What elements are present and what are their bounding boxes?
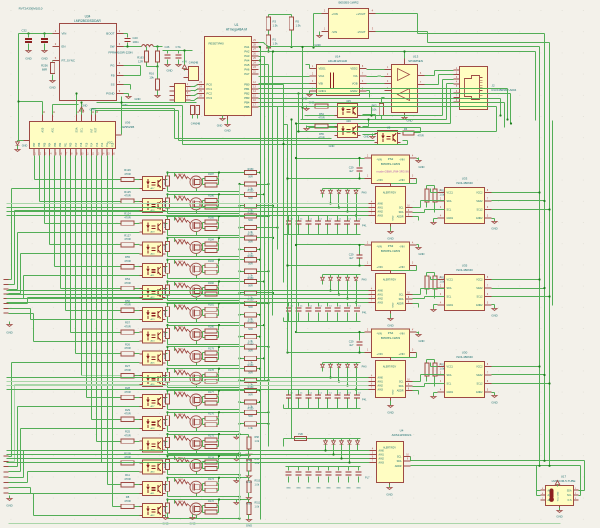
svg-text:R132: R132 — [178, 239, 184, 241]
svg-text:R25: R25 — [125, 430, 130, 434]
svg-text:GND: GND — [49, 86, 55, 90]
svg-text:GND: GND — [393, 302, 395, 307]
svg-text:56R: 56R — [248, 393, 253, 396]
svg-text:R128: R128 — [165, 440, 167, 446]
svg-text:GND: GND — [364, 135, 370, 139]
svg-text:GND: GND — [326, 488, 331, 490]
svg-text:GND2: GND2 — [350, 89, 358, 93]
svg-text:SDA: SDA — [447, 287, 452, 290]
svg-text:P07: P07 — [33, 142, 36, 147]
svg-text:GND: GND — [314, 43, 320, 47]
svg-text:470R: 470R — [124, 390, 130, 394]
svg-text:GND: GND — [419, 252, 425, 256]
svg-text:C29: C29 — [349, 253, 354, 257]
svg-text:VCC1: VCC1 — [447, 279, 454, 282]
svg-text:R132: R132 — [178, 196, 184, 198]
svg-text:R132: R132 — [178, 436, 184, 438]
svg-text:1.0k: 1.0k — [255, 484, 260, 487]
svg-text:SCL: SCL — [81, 127, 84, 132]
svg-text:PS2: PS2 — [388, 157, 394, 161]
svg-text:R132: R132 — [178, 348, 184, 350]
svg-text:P41: P41 — [362, 399, 367, 402]
svg-text:GND: GND — [387, 411, 393, 415]
svg-text:GND: GND — [491, 401, 497, 405]
svg-text:SDA2: SDA2 — [476, 374, 483, 377]
svg-text:U13: U13 — [413, 55, 419, 59]
svg-text:SCL: SCL — [447, 209, 452, 212]
svg-text:AIN2: AIN2 — [379, 458, 385, 461]
svg-text:R55: R55 — [319, 132, 324, 136]
svg-text:470R: 470R — [124, 433, 130, 437]
svg-text:U33: U33 — [462, 177, 468, 181]
svg-text:AIN1: AIN1 — [378, 294, 384, 297]
svg-text:SS: SS — [111, 83, 115, 87]
svg-text:ALERT/RDY: ALERT/RDY — [383, 192, 397, 195]
svg-text:+VOUT: +VOUT — [356, 12, 366, 16]
svg-text:B0505S-1WR3: B0505S-1WR3 — [381, 249, 401, 253]
svg-text:GND: GND — [6, 504, 12, 508]
svg-text:56R: 56R — [248, 328, 253, 331]
svg-text:P05: P05 — [43, 142, 46, 147]
svg-text:U35: U35 — [462, 264, 468, 268]
svg-text:ALERT/RDY: ALERT/RDY — [383, 447, 396, 450]
svg-text:SDA: SDA — [447, 374, 452, 377]
svg-text:-VOUT: -VOUT — [357, 30, 366, 34]
svg-text:R180: R180 — [208, 326, 214, 329]
svg-text:R132: R132 — [178, 218, 184, 220]
svg-text:R127: R127 — [124, 233, 131, 237]
svg-text:AIN2: AIN2 — [378, 385, 384, 388]
svg-text:R128: R128 — [165, 309, 167, 315]
svg-text:AIN2: AIN2 — [378, 211, 384, 214]
svg-text:R3: R3 — [273, 20, 277, 24]
svg-text:SCL: SCL — [397, 456, 402, 459]
svg-text:56R: 56R — [248, 219, 253, 222]
svg-text:R132: R132 — [178, 305, 184, 307]
svg-text:SDA: SDA — [399, 385, 404, 388]
svg-text:GND: GND — [387, 237, 393, 241]
svg-text:R150: R150 — [248, 277, 254, 280]
svg-text:C29: C29 — [349, 340, 354, 344]
svg-text:R8: R8 — [126, 495, 130, 499]
svg-text:U17: U17 — [561, 475, 567, 479]
svg-text:SDA: SDA — [399, 211, 404, 214]
svg-text:R1: R1 — [273, 38, 277, 42]
svg-text:P41: P41 — [362, 312, 367, 315]
svg-text:SCL: SCL — [447, 296, 452, 299]
svg-text:GND: GND — [386, 493, 392, 497]
svg-text:GND: GND — [419, 165, 425, 169]
svg-text:VCC1: VCC1 — [447, 192, 454, 195]
svg-text:68R: 68R — [42, 68, 47, 72]
svg-text:56R: 56R — [248, 306, 253, 309]
svg-text:R132: R132 — [178, 479, 184, 481]
svg-text:SDA: SDA — [397, 460, 402, 463]
svg-text:VOB: VOB — [352, 82, 358, 86]
svg-text:AIN3: AIN3 — [378, 389, 384, 392]
svg-text:J2: J2 — [492, 84, 495, 88]
svg-text:C32: C32 — [22, 29, 28, 33]
svg-text:1.5k: 1.5k — [273, 42, 279, 46]
svg-text:PH0: PH0 — [362, 279, 367, 282]
svg-text:470R: 470R — [124, 477, 130, 481]
svg-text:U2: U2 — [387, 126, 391, 130]
svg-text:SW: SW — [110, 45, 115, 49]
svg-text:GND2: GND2 — [476, 304, 483, 307]
svg-text:VDD2: VDD2 — [350, 67, 358, 71]
svg-text:1.0k: 1.0k — [255, 440, 260, 443]
svg-text:470R: 470R — [318, 116, 324, 120]
svg-text:R178: R178 — [208, 369, 214, 372]
svg-text:GND: GND — [135, 97, 141, 101]
svg-text:GND: GND — [419, 339, 425, 343]
svg-text:U1: U1 — [234, 23, 238, 27]
svg-text:GND: GND — [346, 488, 351, 490]
svg-text:R132: R132 — [178, 261, 184, 263]
svg-text:-VIN: -VIN — [399, 332, 404, 336]
svg-text:R150: R150 — [248, 299, 254, 302]
svg-text:SDA: SDA — [567, 489, 572, 492]
svg-text:PA6: PA6 — [244, 68, 250, 72]
svg-text:P13: P13 — [96, 142, 99, 147]
svg-text:AIN3: AIN3 — [378, 302, 384, 305]
svg-text:GND: GND — [387, 324, 393, 328]
svg-text:AIN1: AIN1 — [378, 381, 384, 384]
svg-text:100n: 100n — [133, 40, 140, 44]
svg-text:R29: R29 — [125, 408, 130, 412]
svg-text:R128: R128 — [165, 244, 167, 250]
svg-text:R150: R150 — [248, 321, 254, 324]
svg-text:R511: R511 — [255, 502, 261, 505]
svg-text:C29: C29 — [349, 166, 354, 170]
svg-text:AIN0: AIN0 — [379, 450, 385, 453]
svg-text:P12: P12 — [101, 142, 104, 147]
svg-text:R128: R128 — [165, 484, 167, 490]
svg-text:56R: 56R — [248, 350, 253, 353]
svg-text:SCL2: SCL2 — [477, 383, 484, 386]
svg-text:P16: P16 — [80, 142, 83, 147]
svg-text:470R: 470R — [124, 412, 130, 416]
svg-text:SDA2: SDA2 — [476, 200, 483, 203]
svg-text:R179: R179 — [208, 347, 214, 350]
svg-text:ADDR: ADDR — [397, 303, 404, 306]
svg-text:GND: GND — [336, 488, 341, 490]
svg-text:PB0: PB0 — [244, 83, 250, 87]
svg-text:ALERT/RDY: ALERT/RDY — [383, 279, 397, 282]
svg-text:GND: GND — [286, 488, 291, 490]
svg-text:SDA2: SDA2 — [476, 287, 483, 290]
svg-text:R150: R150 — [248, 408, 254, 411]
svg-text:R186: R186 — [208, 195, 214, 198]
svg-text:AIN3: AIN3 — [378, 215, 384, 218]
svg-text:470R: 470R — [124, 281, 130, 285]
svg-text:ATmega48A-M: ATmega48A-M — [226, 28, 248, 32]
svg-text:-VIN: -VIN — [399, 245, 404, 249]
svg-text:+VIN: +VIN — [377, 178, 383, 182]
svg-text:-VIN: -VIN — [332, 30, 338, 34]
svg-text:R6: R6 — [404, 127, 408, 131]
svg-text:PGND: PGND — [106, 92, 114, 96]
svg-text:+VIN: +VIN — [377, 265, 383, 269]
svg-text:GND: GND — [491, 227, 497, 231]
svg-text:PL7: PL7 — [365, 477, 370, 480]
svg-text:GND: GND — [167, 69, 173, 73]
svg-text:P15: P15 — [85, 142, 88, 147]
svg-text:ISOL4806DI: ISOL4806DI — [456, 181, 473, 185]
svg-text:470R: 470R — [124, 259, 130, 263]
svg-text:GND2: GND2 — [476, 217, 483, 220]
svg-text:10k: 10k — [372, 108, 377, 112]
svg-text:470R: 470R — [418, 134, 424, 138]
svg-text:+VIN: +VIN — [332, 12, 338, 16]
svg-text:PB3: PB3 — [244, 96, 250, 100]
svg-text:GND: GND — [22, 145, 28, 148]
svg-text:R128: R128 — [165, 222, 167, 228]
svg-text:O.S: O.S — [568, 500, 572, 502]
svg-text:VDD1: VDD1 — [319, 67, 327, 71]
svg-text:R126: R126 — [124, 168, 131, 172]
svg-text:FPRH4100R-220N: FPRH4100R-220N — [108, 51, 132, 55]
svg-text:-VIN: -VIN — [377, 332, 382, 336]
svg-text:56R: 56R — [248, 284, 253, 287]
svg-text:PA3: PA3 — [244, 54, 250, 58]
svg-text:C7A: C7A — [176, 45, 181, 49]
svg-text:R182: R182 — [208, 282, 214, 285]
svg-text:1.3k: 1.3k — [248, 427, 253, 430]
svg-text:AIN0: AIN0 — [378, 290, 384, 293]
svg-text:10k: 10k — [149, 76, 154, 80]
svg-text:VCC GND: VCC GND — [558, 491, 560, 501]
svg-text:R26: R26 — [125, 342, 130, 346]
svg-text:SDA: SDA — [399, 298, 404, 301]
svg-text:R57: R57 — [125, 321, 130, 325]
svg-text:R183: R183 — [208, 260, 214, 263]
svg-text:1.5k: 1.5k — [273, 24, 279, 28]
svg-text:R132: R132 — [178, 392, 184, 394]
svg-text:AIN2: AIN2 — [378, 298, 384, 301]
svg-text:FB: FB — [111, 74, 115, 78]
svg-text:12R: 12R — [138, 60, 143, 64]
svg-text:ISOL4806DI: ISOL4806DI — [456, 268, 473, 272]
svg-text:U30: U30 — [462, 351, 468, 355]
svg-text:P11: P11 — [106, 142, 109, 147]
svg-text:SDA: SDA — [76, 127, 79, 132]
svg-text:ADDR: ADDR — [395, 465, 402, 468]
svg-text:470R: 470R — [124, 346, 130, 350]
svg-text:R55: R55 — [125, 255, 130, 259]
svg-text:VIA: VIA — [353, 74, 358, 78]
svg-text:R128: R128 — [165, 418, 167, 424]
svg-text:C4N04B: C4N04B — [191, 123, 201, 126]
svg-text:P04: P04 — [49, 142, 52, 147]
svg-text:1.5k: 1.5k — [296, 24, 302, 28]
svg-text:GND: GND — [82, 104, 88, 108]
svg-text:56R: 56R — [248, 263, 253, 266]
svg-text:1.0k: 1.0k — [255, 506, 260, 509]
svg-text:-VIN: -VIN — [377, 158, 382, 162]
svg-text:R184: R184 — [208, 238, 214, 241]
svg-text:R128: R128 — [165, 178, 167, 184]
svg-text:ALERT/RDY: ALERT/RDY — [383, 366, 397, 369]
svg-text:R11: R11 — [125, 473, 130, 477]
svg-text:4u7: 4u7 — [349, 169, 354, 173]
svg-text:GND: GND — [6, 331, 12, 335]
svg-text:GND1: GND1 — [447, 391, 454, 394]
svg-text:PS3: PS3 — [388, 244, 394, 248]
svg-text:GND: GND — [41, 57, 47, 61]
svg-text:+VIN: +VIN — [398, 265, 404, 269]
svg-text:LM75CIM-5-TUBE: LM75CIM-5-TUBE — [552, 479, 576, 483]
svg-text:ADDR: ADDR — [397, 216, 404, 219]
svg-text:R150: R150 — [248, 342, 254, 345]
svg-text:R176: R176 — [208, 413, 214, 416]
svg-text:ADDR: ADDR — [397, 390, 404, 393]
svg-text:PC2: PC2 — [207, 92, 213, 96]
svg-text:R58: R58 — [255, 436, 260, 439]
svg-text:GND: GND — [491, 314, 497, 318]
svg-text:56R: 56R — [248, 415, 253, 418]
svg-text:R132: R132 — [178, 174, 184, 176]
svg-text:VIB: VIB — [319, 82, 324, 86]
svg-text:470R: 470R — [124, 237, 130, 241]
svg-text:C4N04B: C4N04B — [189, 62, 199, 65]
svg-text:R128: R128 — [165, 266, 167, 272]
svg-text:R172: R172 — [208, 500, 214, 503]
svg-text:B0505S-1WR2: B0505S-1WR2 — [338, 1, 358, 5]
svg-text:GND: GND — [217, 125, 223, 128]
svg-text:470R: 470R — [124, 303, 130, 307]
svg-text:-VIN: -VIN — [377, 245, 382, 249]
svg-text:4u7: 4u7 — [349, 343, 354, 347]
svg-text:GND: GND — [224, 129, 230, 133]
svg-text:ADuM1201AR: ADuM1201AR — [328, 59, 348, 63]
svg-text:P00: P00 — [70, 142, 73, 147]
svg-text:R128: R128 — [165, 331, 167, 337]
svg-text:R132: R132 — [178, 501, 184, 503]
svg-text:PA4: PA4 — [244, 59, 250, 63]
svg-text:P02: P02 — [59, 142, 62, 147]
svg-text:R163: R163 — [137, 56, 144, 60]
svg-text:PLB: PLB — [298, 433, 303, 436]
svg-text:R54: R54 — [319, 112, 324, 116]
svg-text:R132: R132 — [178, 283, 184, 285]
svg-text:470R: 470R — [124, 324, 130, 328]
svg-text:-VIN: -VIN — [399, 158, 404, 162]
svg-text:P10: P10 — [111, 142, 114, 147]
svg-text:R27: R27 — [125, 364, 130, 368]
svg-text:PB1: PB1 — [244, 87, 250, 91]
svg-text:R181: R181 — [208, 304, 214, 307]
svg-text:AIN1: AIN1 — [378, 207, 384, 210]
svg-text:+VIN: +VIN — [377, 352, 383, 356]
svg-text:R128: R128 — [165, 505, 167, 511]
svg-text:GND: GND — [329, 144, 335, 148]
svg-text:R128: R128 — [165, 353, 167, 359]
svg-text:R16: R16 — [149, 72, 154, 76]
svg-text:AD0: AD0 — [42, 127, 45, 132]
svg-text:R132: R132 — [178, 327, 184, 329]
svg-text:R510: R510 — [255, 480, 261, 483]
svg-text:GND: GND — [356, 488, 361, 490]
svg-text:GND: GND — [556, 515, 562, 519]
svg-text:PA7: PA7 — [244, 72, 250, 76]
svg-text:VCC1: VCC1 — [447, 366, 454, 369]
svg-text:R132: R132 — [178, 370, 184, 372]
svg-text:470R: 470R — [124, 368, 130, 372]
svg-text:VCC2: VCC2 — [476, 279, 483, 282]
svg-text:ISOL4806DI: ISOL4806DI — [456, 355, 473, 359]
svg-text:PA1: PA1 — [244, 45, 250, 49]
svg-text:GND: GND — [316, 488, 321, 490]
svg-text:R177: R177 — [208, 391, 214, 394]
svg-text:SCL: SCL — [399, 381, 404, 384]
svg-text:R5: R5 — [296, 20, 300, 24]
svg-text:PC0: PC0 — [207, 83, 213, 87]
svg-text:PA5: PA5 — [244, 63, 250, 67]
svg-text:+VIN: +VIN — [398, 178, 404, 182]
svg-text:470R: 470R — [124, 194, 130, 198]
svg-text:PC3: PC3 — [207, 96, 213, 100]
svg-text:SCL: SCL — [567, 495, 572, 497]
svg-text:R150: R150 — [248, 255, 254, 258]
svg-text:R132: R132 — [178, 414, 184, 416]
svg-text:+VIN: +VIN — [398, 352, 404, 356]
svg-text:4u7: 4u7 — [349, 256, 354, 260]
svg-text:P06: P06 — [38, 142, 41, 147]
svg-text:GND: GND — [306, 488, 311, 490]
svg-text:R150: R150 — [248, 364, 254, 367]
svg-text:470R: 470R — [124, 172, 130, 176]
svg-text:GND: GND — [25, 57, 31, 61]
svg-text:RT_SYNC: RT_SYNC — [62, 59, 75, 63]
svg-text:AIN1: AIN1 — [379, 454, 385, 457]
svg-text:P14: P14 — [91, 142, 94, 147]
svg-text:VIN: VIN — [62, 32, 67, 36]
svg-text:GND: GND — [393, 389, 395, 394]
svg-text:GND: GND — [296, 488, 301, 490]
svg-text:470R: 470R — [124, 499, 130, 503]
svg-text:B0505S-1WR3: B0505S-1WR3 — [381, 162, 401, 166]
svg-text:P01: P01 — [64, 142, 67, 147]
svg-text:PB4: PB4 — [244, 101, 250, 105]
svg-text:SCL2: SCL2 — [477, 296, 484, 299]
svg-text:GND2: GND2 — [476, 391, 483, 394]
svg-text:R173: R173 — [208, 478, 214, 481]
svg-text:PS4: PS4 — [388, 331, 394, 335]
svg-text:56R: 56R — [248, 372, 253, 375]
svg-text:C26: C26 — [165, 45, 170, 49]
svg-text:R128: R128 — [165, 396, 167, 402]
svg-text:BOOT: BOOT — [106, 32, 114, 36]
svg-text:VCC2: VCC2 — [476, 192, 483, 195]
svg-text:56R: 56R — [248, 197, 253, 200]
svg-text:SDA: SDA — [447, 200, 452, 203]
svg-text:P03: P03 — [54, 142, 57, 147]
svg-text:R150: R150 — [248, 386, 254, 389]
svg-text:RVT2A330M1010: RVT2A330M1010 — [19, 7, 43, 11]
svg-text:VOA: VOA — [319, 74, 325, 78]
svg-text:GPIO: GPIO — [90, 108, 97, 112]
svg-text:SCL: SCL — [399, 294, 404, 297]
svg-text:PH0: PH0 — [362, 366, 367, 369]
svg-text:SCL2: SCL2 — [477, 209, 484, 212]
svg-text:B0505S-1WR3: B0505S-1WR3 — [381, 336, 401, 340]
svg-text:56R: 56R — [248, 175, 253, 178]
svg-text:GND1: GND1 — [447, 217, 454, 220]
svg-text:R175: R175 — [208, 435, 214, 438]
svg-text:P41: P41 — [362, 225, 367, 228]
svg-text:R185: R185 — [208, 217, 214, 220]
